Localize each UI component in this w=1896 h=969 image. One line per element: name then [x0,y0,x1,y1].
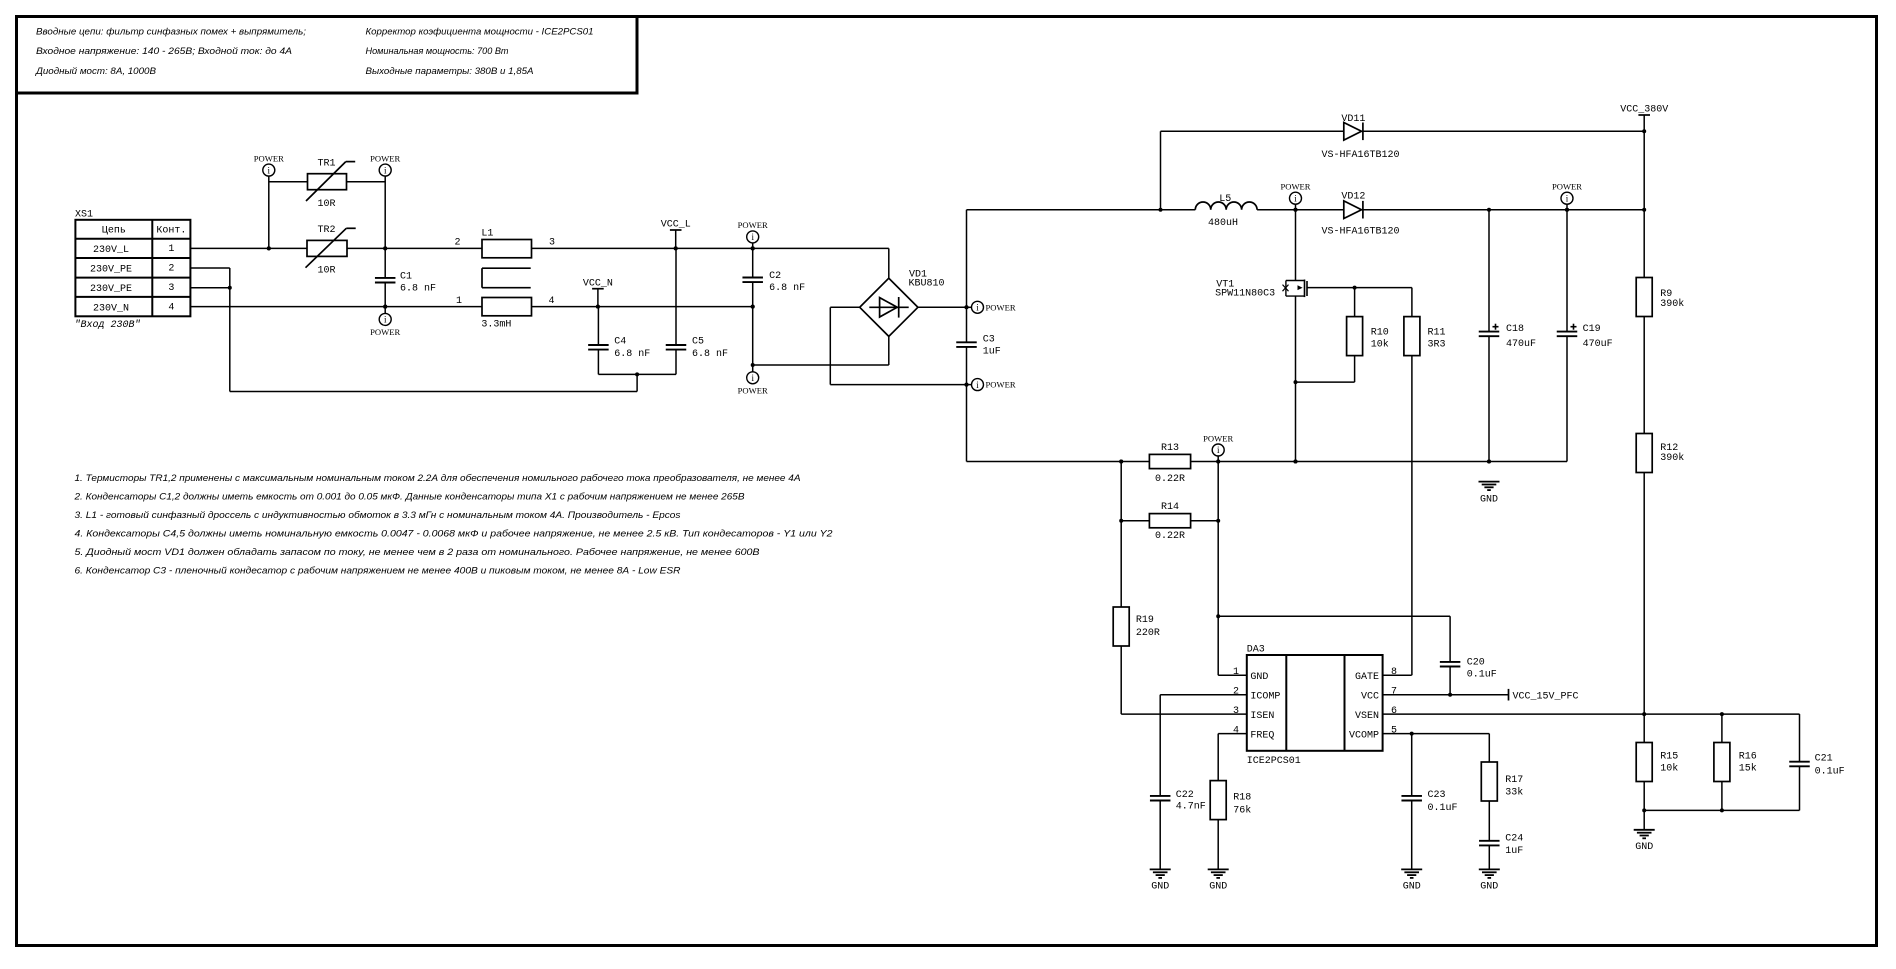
svg-text:C4: C4 [614,337,626,348]
svg-text:SPW11N80C3: SPW11N80C3 [1215,289,1275,300]
svg-text:2: 2 [168,264,174,275]
svg-text:POWER: POWER [1552,182,1582,192]
svg-text:6.8 nF: 6.8 nF [614,349,650,360]
svg-text:3: 3 [1233,706,1239,717]
svg-text:5: 5 [1391,725,1397,736]
svg-text:TR2: TR2 [318,225,336,236]
svg-text:4: 4 [548,296,554,307]
svg-text:230V_N: 230V_N [93,303,129,314]
svg-text:6: 6 [1391,706,1397,717]
svg-text:1: 1 [456,296,462,307]
svg-text:230V_PE: 230V_PE [90,284,132,295]
svg-text:"Вход 230В": "Вход 230В" [75,319,141,331]
svg-text:VS-HFA16TB120: VS-HFA16TB120 [1322,226,1400,237]
svg-text:C19: C19 [1583,324,1601,335]
svg-text:GATE: GATE [1355,672,1379,683]
svg-text:C18: C18 [1506,324,1524,335]
svg-text:VCOMP: VCOMP [1349,730,1379,741]
svg-text:0.1uF: 0.1uF [1428,803,1458,814]
svg-text:R13: R13 [1161,443,1179,454]
svg-text:1uF: 1uF [983,346,1001,357]
svg-text:230V_L: 230V_L [93,245,129,256]
svg-text:3: 3 [168,283,174,294]
svg-text:4: 4 [1233,725,1239,736]
svg-text:2. Конденсаторы С1,2 должны им: 2. Конденсаторы С1,2 должны иметь емкост… [73,492,745,503]
svg-text:DA3: DA3 [1247,644,1265,655]
svg-text:R16: R16 [1739,752,1757,763]
svg-text:R15: R15 [1660,752,1678,763]
svg-text:10R: 10R [318,199,336,210]
svg-text:ISEN: ISEN [1250,711,1274,722]
svg-text:GND: GND [1403,882,1421,893]
svg-text:POWER: POWER [1203,433,1233,443]
svg-text:Вводные цепи: фильтр синфазных: Вводные цепи: фильтр синфазных помех + в… [36,27,306,38]
svg-text:C5: C5 [692,337,704,348]
svg-text:470uF: 470uF [1506,339,1536,350]
svg-text:C1: C1 [400,272,412,283]
svg-text:6.8 nF: 6.8 nF [769,283,805,294]
svg-text:ICE2PCS01: ICE2PCS01 [1247,756,1301,767]
svg-text:1. Термисторы TR1,2 применены: 1. Термисторы TR1,2 применены с максимал… [75,473,801,484]
svg-text:Цепь: Цепь [102,226,126,237]
svg-text:3: 3 [549,238,555,249]
svg-text:5. Диодный мост VD1 должен обл: 5. Диодный мост VD1 должен обладать запа… [75,547,761,558]
svg-text:3R3: 3R3 [1428,339,1446,350]
svg-text:6. Конденсатор С3 - пленочный: 6. Конденсатор С3 - пленочный кондесатор… [75,566,681,577]
svg-text:GND: GND [1151,882,1169,893]
svg-text:GND: GND [1635,842,1653,853]
svg-text:VCC_380V: VCC_380V [1620,105,1668,116]
svg-text:230V_PE: 230V_PE [90,265,132,276]
svg-text:C22: C22 [1176,790,1194,801]
svg-text:0.22R: 0.22R [1155,531,1185,542]
svg-text:0.1uF: 0.1uF [1467,670,1497,681]
svg-text:10R: 10R [318,266,336,277]
svg-text:390k: 390k [1660,452,1684,464]
svg-text:ICOMP: ICOMP [1250,692,1280,703]
svg-text:3.3mH: 3.3mH [481,319,511,330]
svg-text:C20: C20 [1467,658,1485,669]
svg-text:2: 2 [454,238,460,249]
svg-text:POWER: POWER [370,153,400,163]
svg-text:0.1uF: 0.1uF [1815,767,1845,778]
svg-text:GND: GND [1209,882,1227,893]
svg-text:3. L1 - готовый синфазный дрос: 3. L1 - готовый синфазный дроссель с инд… [75,510,681,521]
svg-text:R19: R19 [1136,615,1154,626]
svg-text:0.22R: 0.22R [1155,474,1185,485]
svg-text:VS-HFA16TB120: VS-HFA16TB120 [1322,150,1400,161]
svg-text:VCC_15V_PFC: VCC_15V_PFC [1513,691,1579,702]
svg-text:1: 1 [168,244,174,255]
svg-text:33k: 33k [1505,786,1523,798]
svg-text:GND: GND [1480,495,1498,506]
svg-text:4. Кондексаторы С4,5 должны им: 4. Кондексаторы С4,5 должны иметь номина… [75,529,834,540]
svg-text:KBU810: KBU810 [909,278,945,289]
svg-text:VCC_N: VCC_N [583,278,613,289]
svg-text:C3: C3 [983,335,995,346]
svg-text:R18: R18 [1233,793,1251,804]
svg-text:10k: 10k [1660,763,1678,775]
svg-text:POWER: POWER [254,153,284,163]
svg-text:VSEN: VSEN [1355,711,1379,722]
svg-text:POWER: POWER [738,220,768,230]
svg-text:POWER: POWER [738,385,768,395]
svg-text:Диодный мост: 8А, 1000В: Диодный мост: 8А, 1000В [35,66,157,77]
svg-text:Конт.: Конт. [156,226,186,237]
svg-text:220R: 220R [1136,628,1160,639]
svg-text:1uF: 1uF [1505,846,1523,857]
svg-text:C24: C24 [1505,833,1523,844]
svg-text:10k: 10k [1371,338,1389,350]
svg-text:POWER: POWER [370,327,400,337]
svg-text:6.8 nF: 6.8 nF [692,349,728,360]
svg-text:VD12: VD12 [1341,191,1365,202]
svg-text:GND: GND [1480,882,1498,893]
svg-text:8: 8 [1391,667,1397,678]
svg-text:390k: 390k [1660,298,1684,310]
svg-text:Корректор коэфициента мощности: Корректор коэфициента мощности - ICE2PCS… [366,27,594,38]
svg-text:R11: R11 [1428,328,1446,339]
svg-text:2: 2 [1233,687,1239,698]
svg-text:VCC_L: VCC_L [661,220,691,231]
svg-text:15k: 15k [1739,763,1757,775]
svg-text:VD11: VD11 [1341,114,1365,125]
svg-text:R10: R10 [1371,328,1389,339]
svg-text:4: 4 [168,302,174,313]
svg-text:Выходные параметры: 380В и 1,8: Выходные параметры: 380В и 1,85А [366,66,534,77]
svg-text:6.8 nF: 6.8 nF [400,283,436,294]
svg-text:VCC: VCC [1361,692,1379,703]
svg-text:GND: GND [1250,672,1268,683]
svg-text:470uF: 470uF [1583,339,1613,350]
svg-text:Номинальная мощность: 700 Вт: Номинальная мощность: 700 Вт [366,46,509,57]
svg-text:POWER: POWER [1280,182,1310,192]
svg-text:R14: R14 [1161,502,1179,513]
svg-text:1: 1 [1233,667,1239,678]
svg-text:Входное напряжение: 140 - 265В: Входное напряжение: 140 - 265В; Входной … [36,46,292,57]
svg-text:76k: 76k [1233,804,1251,816]
svg-text:POWER: POWER [986,380,1016,390]
svg-text:FREQ: FREQ [1250,730,1274,741]
svg-text:POWER: POWER [986,302,1016,312]
svg-text:TR1: TR1 [318,159,336,170]
svg-text:4.7nF: 4.7nF [1176,802,1206,813]
svg-text:R17: R17 [1505,775,1523,786]
svg-text:C23: C23 [1428,790,1446,801]
svg-text:480uH: 480uH [1208,218,1238,229]
svg-text:C2: C2 [769,271,781,282]
svg-text:L5: L5 [1219,194,1231,205]
svg-text:C21: C21 [1815,754,1833,765]
svg-text:L1: L1 [481,228,493,239]
svg-text:7: 7 [1391,687,1397,698]
